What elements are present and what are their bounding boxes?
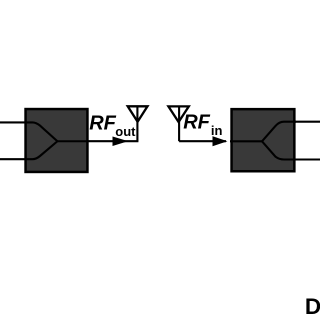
splitter U2 taper bottom arm [262, 141, 296, 159]
combiner U1 taper top arm [25, 122, 57, 141]
antenna RX triangle [168, 106, 188, 122]
wire left input top [0, 121, 27, 123]
splitter U2 input stub [230, 140, 262, 142]
splitter U2 taper top arm [262, 122, 296, 142]
antenna RX feed line [178, 107, 180, 142]
wire RFout [87, 140, 138, 142]
svg-text:RF: RF [183, 111, 210, 133]
svg-text:RF: RF [89, 113, 116, 135]
svg-text:out: out [115, 124, 136, 139]
arrow RFin [213, 137, 226, 146]
antenna TX triangle [128, 106, 148, 121]
arrow RFout [113, 137, 127, 145]
svg-text:in: in [211, 123, 223, 138]
power combiner U1 (left box) [26, 109, 88, 172]
wire left input bottom [0, 158, 27, 160]
wire RFin [179, 140, 226, 142]
combiner U1 taper bottom arm [25, 141, 57, 159]
svg-text:D: D [305, 294, 320, 319]
wire right output top [294, 121, 320, 123]
antenna TX feed line [136, 107, 138, 142]
power splitter U2 (right box) [232, 109, 295, 171]
wire right output bottom [294, 158, 320, 160]
combiner U1 output stub [57, 140, 88, 142]
